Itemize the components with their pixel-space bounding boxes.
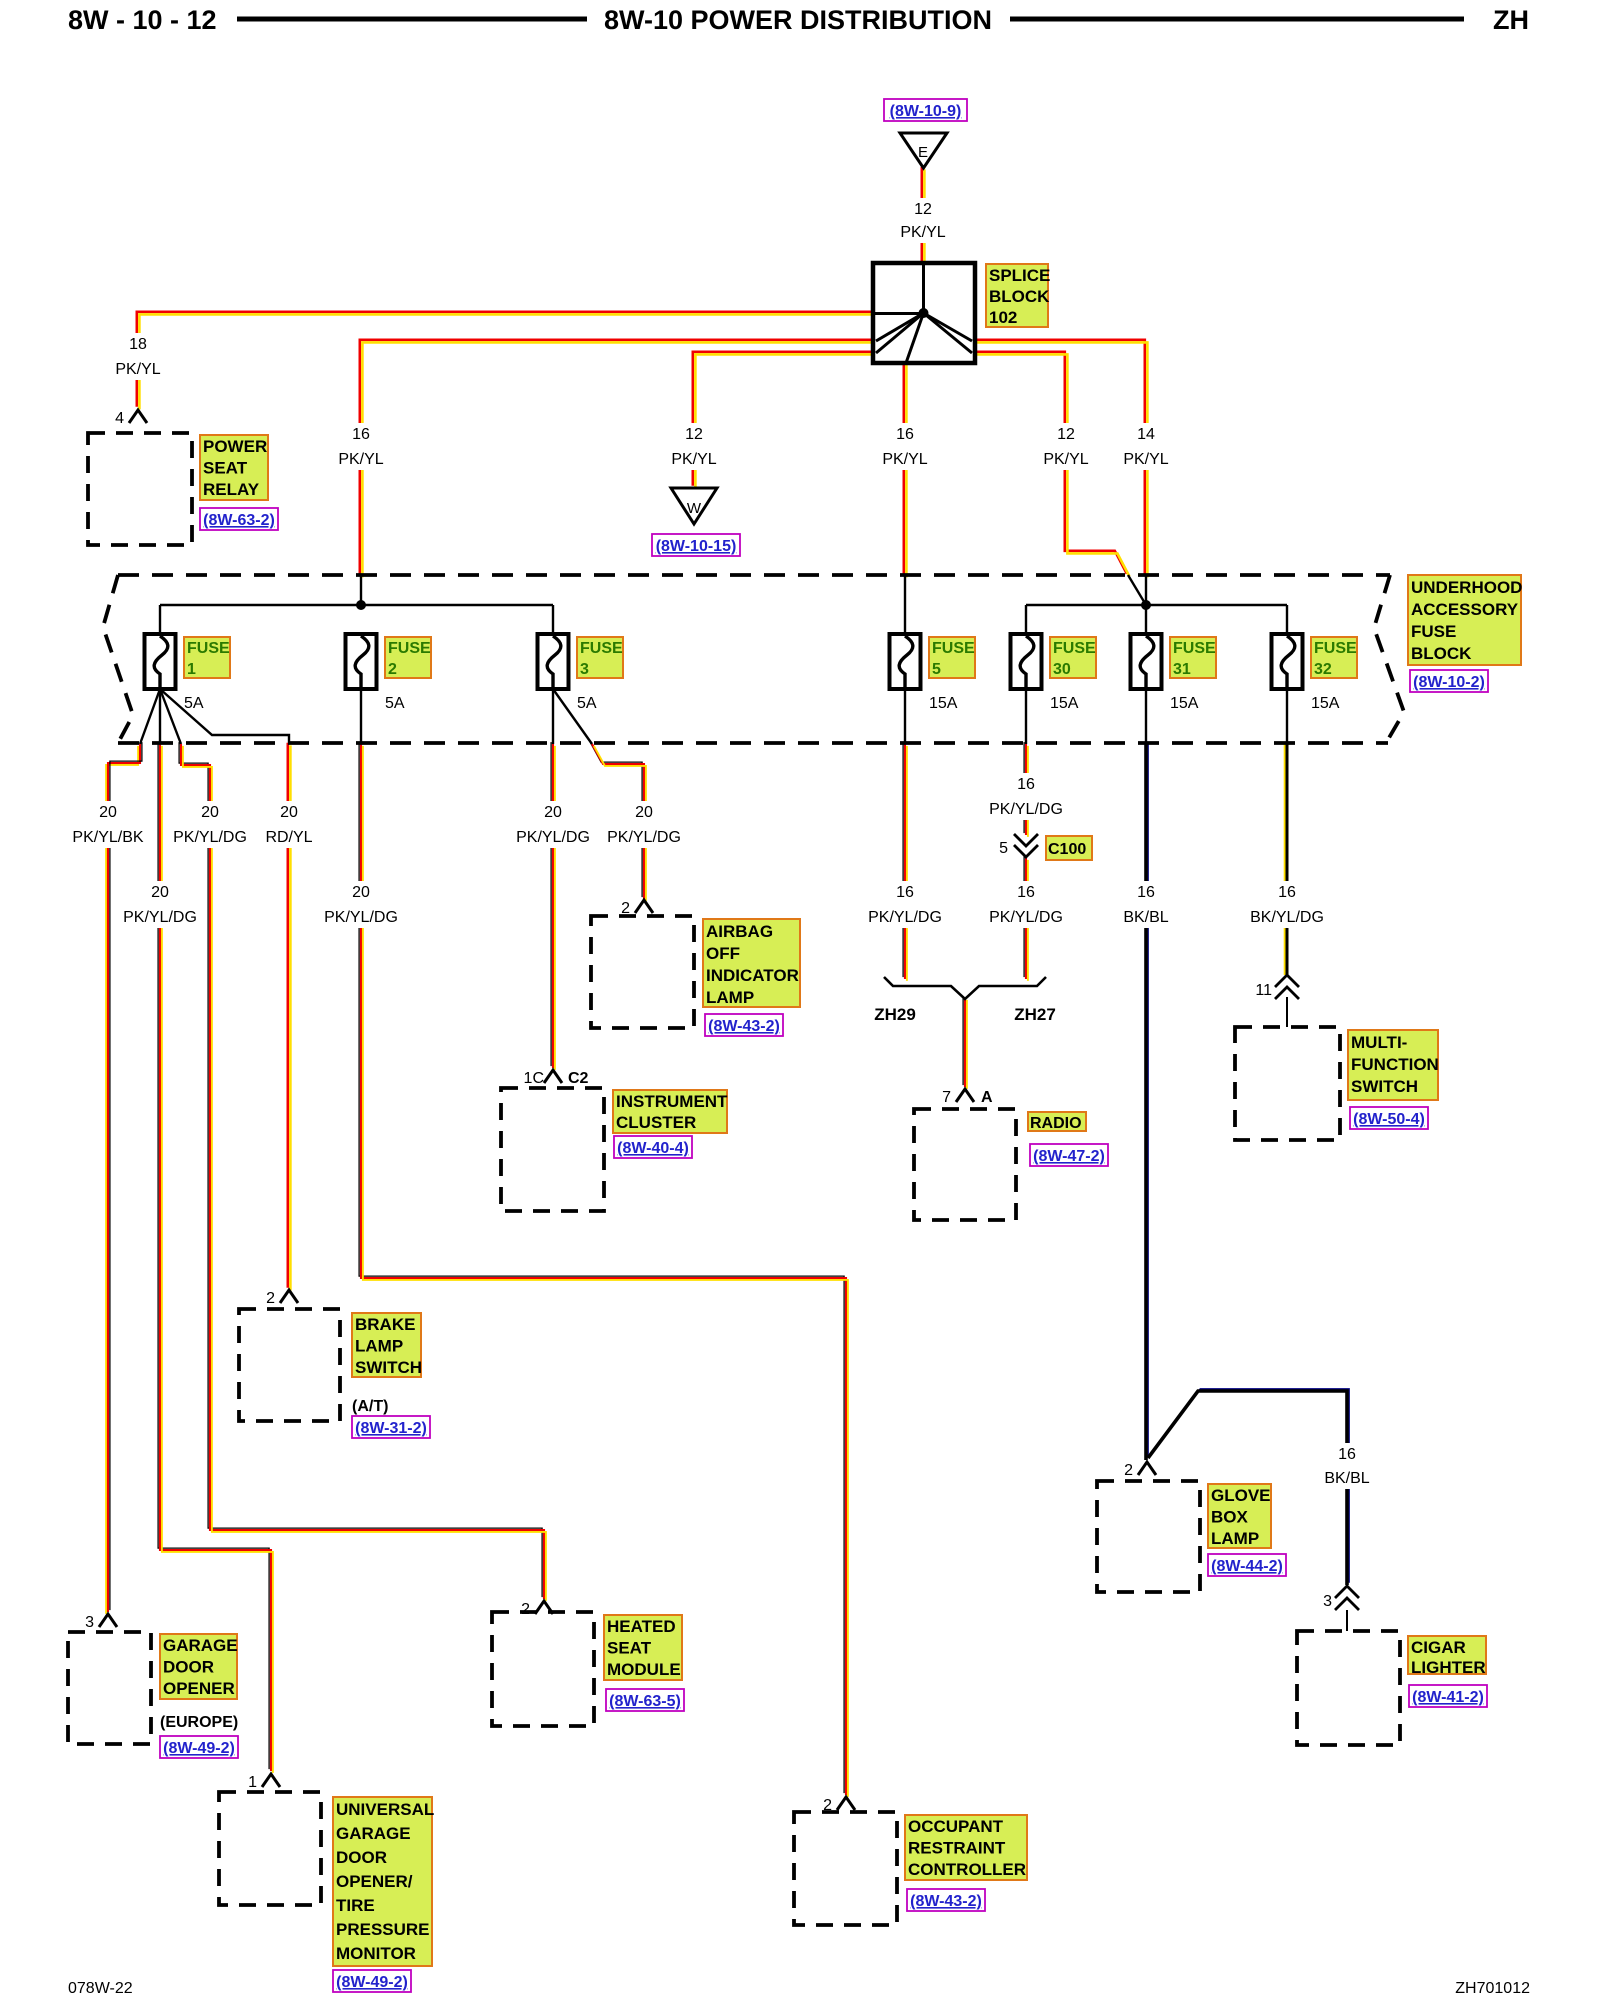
svg-text:CLUSTER: CLUSTER (616, 1113, 696, 1132)
svg-text:20: 20 (201, 804, 219, 821)
wire fuse31 out (1145, 689, 1147, 744)
garage door opener box (68, 1632, 151, 1744)
label 12 PK/YL (W) (666, 423, 722, 470)
svg-text:3: 3 (580, 661, 589, 678)
svg-text:RELAY: RELAY (203, 480, 260, 499)
wire bus stub fuse 31 (1145, 605, 1147, 634)
connector heated seat module pin 2 (521, 1601, 553, 1618)
reference (8W-10-2) (1410, 670, 1488, 692)
svg-text:RADIO: RADIO (1030, 1115, 1082, 1132)
label 20 PK/YL/BK (65, 801, 151, 848)
svg-text:(8W-40-4): (8W-40-4) (617, 1140, 689, 1157)
label 20 RD/YL (259, 801, 319, 848)
wire feed fuse 5 (904, 575, 906, 634)
wire bus stub fuse 32 (1286, 605, 1288, 634)
wire fuse1 out a (140, 689, 160, 744)
splice block 102 (873, 263, 975, 363)
reference (8W-49-2) gdo (160, 1736, 238, 1758)
wire 16 PK/YL/DG fuse30 to C100 (1024, 742, 1028, 837)
svg-text:(8W-41-2): (8W-41-2) (1412, 1689, 1484, 1706)
label UNIVERSAL GDO TIRE PRESSURE MONITOR (333, 1797, 434, 1966)
svg-text:(8W-47-2): (8W-47-2) (1033, 1148, 1105, 1165)
connector garage door opener pin 3 (85, 1614, 117, 1631)
svg-text:A: A (981, 1089, 993, 1106)
svg-text:5A: 5A (577, 695, 597, 712)
reference (8W-10-9) (884, 99, 967, 121)
wire bus stub fuse 1 (159, 605, 161, 634)
svg-text:PK/YL: PK/YL (900, 224, 945, 241)
wire 20 PK/YL/DG to airbag off indicator lamp (590, 742, 646, 901)
label 12 PK/YL (bus 30-32) (1039, 423, 1093, 470)
svg-text:OPENER/: OPENER/ (336, 1872, 413, 1891)
svg-text:PK/YL/DG: PK/YL/DG (607, 829, 681, 846)
svg-text:(EUROPE): (EUROPE) (160, 1714, 238, 1731)
wire fuse1 out b (159, 689, 161, 744)
reference (8W-63-5) (606, 1689, 684, 1711)
svg-text:GARAGE: GARAGE (163, 1636, 238, 1655)
svg-text:BOX: BOX (1211, 1508, 1249, 1527)
label CIGAR LIGHTER (1408, 1636, 1486, 1677)
svg-text:(8W-63-2): (8W-63-2) (203, 512, 275, 529)
svg-text:20: 20 (352, 884, 370, 901)
power seat relay box (88, 433, 192, 545)
svg-text:2: 2 (521, 1601, 530, 1618)
svg-text:15A: 15A (929, 695, 958, 712)
wire 16 BK/BL fuse31 to glove box lamp (1146, 742, 1148, 1460)
svg-text:14: 14 (1137, 426, 1155, 443)
reference (8W-10-15) (652, 534, 740, 556)
svg-text:MODULE: MODULE (607, 1660, 681, 1679)
svg-text:20: 20 (99, 804, 117, 821)
svg-text:1: 1 (187, 661, 196, 678)
svg-text:BLOCK: BLOCK (1411, 644, 1472, 663)
svg-text:OCCUPANT: OCCUPANT (908, 1817, 1004, 1836)
wire diagonal feed to bus junction (1128, 575, 1146, 605)
svg-text:(8W-10-2): (8W-10-2) (1413, 674, 1485, 691)
label 20 PK/YL/DG (instrument cluster) (510, 801, 596, 848)
svg-text:2: 2 (266, 1290, 275, 1307)
connector multi-function switch pin 11 (1255, 975, 1299, 999)
fuse F5 (890, 634, 921, 689)
connector airbag lamp pin 2 (621, 900, 653, 917)
connector pin 4 power seat relay (115, 410, 147, 427)
svg-text:DOOR: DOOR (336, 1848, 387, 1867)
svg-text:PRESSURE: PRESSURE (336, 1920, 430, 1939)
label 16 PK/YL (fuse bus) (333, 423, 389, 470)
svg-text:3: 3 (1323, 1593, 1332, 1610)
svg-text:16: 16 (1137, 884, 1155, 901)
svg-text:SEAT: SEAT (607, 1639, 652, 1658)
svg-text:(A/T): (A/T) (352, 1398, 388, 1415)
fuse F30 (1011, 634, 1042, 689)
underhood accessory fuse block outline (103, 575, 1404, 743)
connector universal gdo pin 1 (248, 1774, 280, 1791)
label HEATED SEAT MODULE (604, 1615, 682, 1680)
universal garage door opener box (219, 1792, 321, 1905)
wire 16 PK/YL/DG bracket to radio (963, 996, 967, 1089)
reference (8W-63-2) (200, 508, 278, 530)
label 20 PK/YL/DG (heated seat) (167, 801, 253, 848)
svg-text:UNIVERSAL: UNIVERSAL (336, 1800, 434, 1819)
svg-text:PK/YL/DG: PK/YL/DG (123, 909, 197, 926)
svg-text:20: 20 (544, 804, 562, 821)
svg-text:FUSE: FUSE (1053, 640, 1096, 657)
label 16 BK/BL (cigar) (1318, 1443, 1376, 1489)
label 12 PK/YL (source) (895, 198, 951, 243)
wire 18 PK/YL splice to power seat relay (137, 312, 875, 410)
wire 12 PK/YL splice to W ground (693, 352, 875, 489)
label 14 PK/YL (bus 30-32) (1119, 423, 1173, 470)
svg-text:POWER: POWER (203, 437, 267, 456)
svg-text:E: E (918, 144, 928, 161)
fuse bus 1-3 (160, 604, 553, 606)
label FUSE 1 (184, 637, 230, 678)
wire 20 PK/YL/DG to heated seat module (179, 742, 546, 1601)
svg-text:12: 12 (1057, 426, 1075, 443)
label FUSE 5 (929, 637, 975, 678)
svg-text:102: 102 (989, 308, 1017, 327)
svg-text:PK/YL/DG: PK/YL/DG (516, 829, 590, 846)
svg-text:(8W-50-4): (8W-50-4) (1353, 1111, 1425, 1128)
svg-text:FUSE: FUSE (932, 640, 975, 657)
svg-text:31: 31 (1173, 661, 1191, 678)
svg-text:18: 18 (129, 336, 147, 353)
label 16 BK/YL/DG (1244, 881, 1330, 928)
svg-text:CIGAR: CIGAR (1411, 1638, 1466, 1657)
label 18 PK/YL (110, 333, 166, 380)
glove box lamp box (1097, 1481, 1200, 1592)
svg-text:11: 11 (1255, 982, 1272, 999)
svg-text:LAMP: LAMP (355, 1337, 403, 1356)
wire fuse1 out d (160, 689, 289, 744)
svg-text:(8W-10-15): (8W-10-15) (656, 538, 737, 555)
wire fuse5 out (904, 689, 906, 744)
label 16 BK/BL (1117, 881, 1175, 928)
label 20 PK/YL/DG (airbag lamp) (601, 801, 687, 848)
svg-text:16: 16 (896, 884, 914, 901)
label 16 PK/YL/DG (fuse30 lower) (983, 881, 1069, 928)
label POWER SEAT RELAY (200, 435, 268, 500)
svg-text:RESTRAINT: RESTRAINT (908, 1839, 1006, 1858)
svg-text:5: 5 (932, 661, 941, 678)
svg-text:PK/YL/DG: PK/YL/DG (173, 829, 247, 846)
svg-text:AIRBAG: AIRBAG (706, 922, 773, 941)
label GARAGE DOOR OPENER (160, 1634, 238, 1699)
connector C100 pin 5 (999, 834, 1038, 857)
wire fuse32 out (1286, 689, 1288, 744)
connector instrument cluster pin 1C C2 (524, 1070, 589, 1087)
page header (68, 5, 1529, 35)
svg-text:LAMP: LAMP (706, 988, 754, 1007)
connector occupant restraint controller pin 2 (823, 1797, 855, 1814)
cigar lighter box (1297, 1631, 1400, 1745)
svg-text:FUNCTION: FUNCTION (1351, 1055, 1439, 1074)
svg-text:2: 2 (388, 661, 397, 678)
svg-text:INDICATOR: INDICATOR (706, 966, 799, 985)
reference (8W-43-2) orc (907, 1889, 985, 1911)
fuse F3 (538, 634, 569, 689)
svg-text:8W - 10 - 12: 8W - 10 - 12 (68, 5, 217, 35)
svg-text:BK/BL: BK/BL (1123, 909, 1168, 926)
wire 20 PK/YL/DG to occupant restraint controller (359, 742, 848, 1797)
wire fuse bus feed at fuse 2 (360, 575, 362, 605)
wire 16 PK/YL/DG C100 to splice bracket (1024, 856, 1028, 981)
svg-text:LIGHTER: LIGHTER (1411, 1658, 1486, 1677)
label 16 PK/YL (fuse5) (877, 423, 933, 470)
svg-text:CONTROLLER: CONTROLLER (908, 1860, 1026, 1879)
svg-text:BLOCK: BLOCK (989, 287, 1050, 306)
svg-text:BK/BL: BK/BL (1324, 1470, 1369, 1487)
svg-text:ZH701012: ZH701012 (1455, 1980, 1530, 1997)
label 16 PK/YL/DG (fuse5 lower) (862, 881, 948, 928)
reference (8W-47-2) (1030, 1144, 1108, 1166)
svg-text:16: 16 (1278, 884, 1296, 901)
wire 20 PK/YL/DG to universal garage door opener (158, 742, 273, 1773)
label UNDERHOOD ACCESSORY FUSE BLOCK (1408, 575, 1522, 665)
svg-text:078W-22: 078W-22 (68, 1980, 133, 1997)
reference (8W-41-2) (1409, 1685, 1487, 1707)
airbag off indicator lamp box (591, 916, 694, 1028)
svg-text:FUSE: FUSE (580, 640, 623, 657)
svg-text:PK/YL/DG: PK/YL/DG (989, 909, 1063, 926)
label INSTRUMENT CLUSTER (613, 1090, 728, 1133)
reference (8W-40-4) (614, 1136, 692, 1158)
svg-text:12: 12 (914, 201, 932, 218)
svg-text:SEAT: SEAT (203, 459, 248, 478)
svg-text:RD/YL: RD/YL (265, 829, 312, 846)
svg-text:PK/YL/DG: PK/YL/DG (989, 801, 1063, 818)
svg-text:SWITCH: SWITCH (355, 1358, 422, 1377)
wire bus stub fuse 30 (1025, 605, 1027, 634)
svg-text:16: 16 (1338, 1446, 1356, 1463)
wire connector3 to cigar lighter (1346, 1610, 1348, 1631)
svg-text:(8W-49-2): (8W-49-2) (336, 1974, 408, 1991)
svg-text:C100: C100 (1048, 841, 1086, 858)
wire 20 RD/YL to brake lamp switch (288, 743, 291, 1291)
wire 12 PK/YL from source E (922, 167, 925, 265)
svg-text:TIRE: TIRE (336, 1896, 375, 1915)
reference (8W-43-2) airbag (705, 1014, 783, 1036)
svg-text:SWITCH: SWITCH (1351, 1077, 1418, 1096)
svg-text:MONITOR: MONITOR (336, 1944, 416, 1963)
label MULTI-FUNCTION SWITCH (1348, 1030, 1439, 1100)
fuse F2 (346, 634, 377, 689)
splice bracket ZH29/ZH27 (874, 977, 1056, 1024)
svg-text:30: 30 (1053, 661, 1071, 678)
label RADIO (1028, 1112, 1086, 1132)
label GLOVE BOX LAMP (1208, 1484, 1271, 1548)
multi-function switch box (1235, 1027, 1340, 1140)
svg-text:2: 2 (1124, 1462, 1133, 1479)
svg-text:16: 16 (1017, 776, 1035, 793)
svg-text:ZH27: ZH27 (1014, 1005, 1056, 1024)
wire 16 BK/YL/DG fuse32 to multi-function switch (1285, 744, 1287, 975)
label SPLICE BLOCK 102 (986, 264, 1050, 327)
svg-text:20: 20 (280, 804, 298, 821)
svg-text:(8W-44-2): (8W-44-2) (1211, 1558, 1283, 1575)
svg-text:16: 16 (352, 426, 370, 443)
svg-text:FUSE: FUSE (1173, 640, 1216, 657)
svg-text:INSTRUMENT: INSTRUMENT (616, 1092, 728, 1111)
instrument cluster box (501, 1088, 604, 1211)
svg-text:GARAGE: GARAGE (336, 1824, 411, 1843)
wire 14 PK/YL splice to fuse bus 30-32 (974, 340, 1148, 578)
svg-text:PK/YL: PK/YL (671, 451, 716, 468)
wire connector11 to multi-function switch (1286, 997, 1288, 1027)
label FUSE 30 (1050, 637, 1096, 678)
heated seat module box (492, 1612, 594, 1726)
svg-text:FUSE: FUSE (388, 640, 431, 657)
svg-text:15A: 15A (1170, 695, 1199, 712)
svg-text:20: 20 (151, 884, 169, 901)
svg-text:OFF: OFF (706, 944, 740, 963)
svg-text:5A: 5A (184, 695, 204, 712)
svg-text:BK/YL/DG: BK/YL/DG (1250, 909, 1324, 926)
radio box (914, 1109, 1016, 1220)
connector brake lamp switch pin 2 (266, 1290, 298, 1307)
svg-text:PK/YL: PK/YL (1043, 451, 1088, 468)
svg-text:16: 16 (1017, 884, 1035, 901)
wire bus stub fuse 3 (552, 605, 554, 634)
svg-text:DOOR: DOOR (163, 1658, 214, 1677)
svg-text:PK/YL: PK/YL (882, 451, 927, 468)
svg-text:SPLICE: SPLICE (989, 266, 1050, 285)
wire 16 PK/YL splice to fuse bus 1-3 (360, 340, 875, 578)
reference (8W-49-2) ugdo (333, 1970, 411, 1992)
svg-text:ZH: ZH (1493, 5, 1529, 35)
svg-text:(8W-31-2): (8W-31-2) (355, 1420, 427, 1437)
svg-text:W: W (687, 500, 702, 517)
svg-text:3: 3 (85, 1614, 94, 1631)
fuse F32 (1272, 634, 1303, 689)
svg-text:PK/YL/DG: PK/YL/DG (324, 909, 398, 926)
occupant restraint controller box (794, 1812, 897, 1925)
svg-text:UNDERHOOD: UNDERHOOD (1411, 578, 1522, 597)
svg-text:PK/YL: PK/YL (1123, 451, 1168, 468)
svg-text:4: 4 (115, 410, 124, 427)
svg-text:OPENER: OPENER (163, 1679, 235, 1698)
svg-text:8W-10 POWER DISTRIBUTION: 8W-10 POWER DISTRIBUTION (604, 5, 992, 35)
wire 16 BK/BL branch to cigar lighter (1148, 1389, 1349, 1585)
wire fuse3 out b (553, 689, 592, 744)
label AIRBAG OFF INDICATOR LAMP (703, 919, 800, 1007)
wire 16 PK/YL/DG fuse5 to splice bracket (903, 742, 907, 981)
svg-text:FUSE: FUSE (1314, 640, 1357, 657)
svg-text:5: 5 (999, 840, 1008, 857)
junction dot fuse2 bus (356, 600, 366, 610)
svg-text:C2: C2 (568, 1070, 589, 1087)
wire 16 PK/YL splice to fuse 5 (904, 362, 907, 578)
svg-text:HEATED: HEATED (607, 1617, 676, 1636)
wire fuse3 out a (552, 689, 554, 744)
connector glove box lamp pin 2 (1124, 1462, 1156, 1479)
svg-text:15A: 15A (1050, 695, 1079, 712)
svg-text:32: 32 (1314, 661, 1332, 678)
wire fuse2 out (360, 689, 362, 744)
svg-text:ACCESSORY: ACCESSORY (1411, 600, 1519, 619)
fuse F1 (145, 634, 176, 689)
svg-text:20: 20 (635, 804, 653, 821)
svg-text:(8W-43-2): (8W-43-2) (910, 1893, 982, 1910)
wire 20 PK/YL/DG to instrument cluster (551, 742, 555, 1070)
fuse bus 30-32 (1026, 604, 1287, 606)
brake lamp switch box (239, 1309, 340, 1421)
svg-text:LAMP: LAMP (1211, 1529, 1259, 1548)
wire 20 PK/YL/BK to garage door opener (106, 742, 142, 1614)
wire fuse1 out c (160, 689, 181, 744)
label 20 PK/YL/DG (universal gdo) (117, 881, 203, 928)
label 20 PK/YL/DG (orc) (318, 881, 404, 928)
svg-text:15A: 15A (1311, 695, 1340, 712)
wire fuse bus feed at fuse 31 (1145, 575, 1147, 605)
svg-text:FUSE: FUSE (187, 640, 230, 657)
svg-text:(8W-10-9): (8W-10-9) (890, 103, 962, 120)
reference (8W-31-2) (352, 1416, 430, 1438)
svg-text:BRAKE: BRAKE (355, 1315, 415, 1334)
svg-text:PK/YL: PK/YL (115, 361, 160, 378)
label C100 (1046, 836, 1092, 860)
label FUSE 2 (385, 637, 431, 678)
svg-text:16: 16 (896, 426, 914, 443)
source triangle W (8W-10-15) (671, 488, 717, 524)
label FUSE 32 (1311, 637, 1357, 678)
svg-text:MULTI-: MULTI- (1351, 1033, 1407, 1052)
connector radio pin 7 A (942, 1089, 993, 1106)
svg-text:PK/YL/BK: PK/YL/BK (72, 829, 143, 846)
svg-text:FUSE: FUSE (1411, 622, 1456, 641)
svg-text:5A: 5A (385, 695, 405, 712)
svg-text:GLOVE: GLOVE (1211, 1486, 1271, 1505)
label FUSE 3 (577, 637, 623, 678)
svg-text:(8W-49-2): (8W-49-2) (163, 1740, 235, 1757)
svg-text:PK/YL/DG: PK/YL/DG (868, 909, 942, 926)
connector cigar lighter pin 3 (1323, 1586, 1359, 1610)
label FUSE 31 (1170, 637, 1216, 678)
svg-text:7: 7 (942, 1089, 951, 1106)
reference (8W-44-2) (1208, 1554, 1286, 1576)
wire fuse30 out (1025, 689, 1027, 744)
label 16 PK/YL/DG (above C100) (983, 773, 1069, 820)
svg-text:PK/YL: PK/YL (338, 451, 383, 468)
page footer (68, 1980, 1530, 1997)
svg-text:(8W-43-2): (8W-43-2) (708, 1018, 780, 1035)
svg-text:(8W-63-5): (8W-63-5) (609, 1693, 681, 1710)
label OCCUPANT RESTRAINT CONTROLLER (905, 1815, 1027, 1880)
label BRAKE LAMP SWITCH (352, 1313, 422, 1377)
wire 12 PK/YL splice to fuse bus 30-32 (974, 352, 1130, 577)
svg-text:ZH29: ZH29 (874, 1005, 916, 1024)
svg-text:12: 12 (685, 426, 703, 443)
svg-text:1: 1 (248, 1774, 257, 1791)
reference (8W-50-4) (1350, 1107, 1428, 1129)
junction dot fuse31 bus (1141, 600, 1151, 610)
svg-text:1C: 1C (524, 1070, 544, 1087)
source triangle E (8W-10-9) (900, 133, 947, 168)
fuse F31 (1131, 634, 1162, 689)
